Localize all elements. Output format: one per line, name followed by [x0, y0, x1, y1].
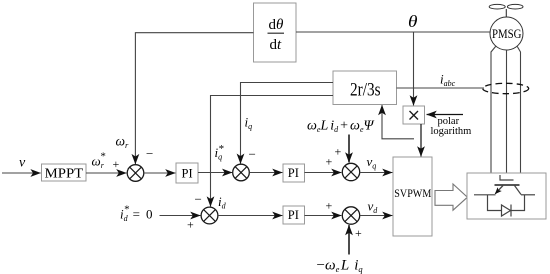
wire S4 to PI3 [218, 215, 282, 217]
wire S3 to SVPWM [360, 172, 393, 174]
svg-text:+: + [113, 157, 120, 171]
box PI3 [283, 206, 305, 224]
wire PI3 to S5 [305, 215, 342, 217]
svg-text:id*=0: id*=0 [120, 204, 152, 224]
svg-text:PI: PI [182, 166, 193, 180]
wire polar logarithm into multiplier [427, 114, 463, 116]
wire multiplier output down into SVPWM [420, 124, 422, 156]
wire diode loop [488, 195, 525, 211]
svg-text:SVPWM: SVPWM [394, 186, 431, 200]
box MPPT [42, 164, 87, 181]
diode D1 [502, 205, 512, 217]
svg-text:PI: PI [288, 166, 299, 180]
summing junction S1 [127, 165, 144, 182]
svg-text:ωr*: ωr* [92, 151, 106, 171]
summing junction S4 [201, 207, 218, 224]
wire feedback from multiplier output up into 2r/3s [382, 105, 414, 139]
label polar logarithm [431, 116, 472, 137]
wire theta branch down into multiplier [413, 32, 415, 105]
svg-text:+: + [187, 218, 194, 232]
wire S1 to PI1 [144, 172, 176, 174]
svg-text:−: − [249, 147, 256, 162]
svg-text:PI: PI [288, 208, 299, 222]
wire 3-phase line b [506, 50, 508, 173]
IGBT emitter rail [474, 194, 496, 196]
box PI2 [283, 164, 305, 182]
summing junction S5 [342, 207, 359, 224]
IGBT bar [495, 184, 520, 186]
wire i_abc from stator to 2r/3s [397, 87, 485, 89]
svg-text:2r/3s: 2r/3s [350, 79, 381, 100]
box SVPWM [393, 157, 432, 236]
svg-text:+: + [326, 199, 333, 213]
summing junction S3 [342, 163, 359, 180]
current sensor dashed ellipse [483, 83, 529, 93]
svg-text:θ: θ [408, 12, 418, 31]
wind turbine blades [489, 4, 523, 17]
wire 3-phase line c [517, 46, 521, 173]
wire i_q from 2r/3s to S2 [241, 83, 334, 164]
wire S2 to PI2 [250, 172, 283, 174]
IGBT collector [515, 186, 522, 195]
box PI1 [176, 163, 198, 183]
wire omega_r from d-theta/dt down to S1 [135, 33, 253, 164]
generator PMSG [490, 17, 523, 50]
svg-text:−: − [146, 146, 153, 161]
summing junction S2 [233, 164, 250, 181]
svg-text:MPPT: MPPT [45, 165, 84, 180]
IGBT gate lead [500, 175, 514, 180]
IGBT collector rail [521, 194, 535, 196]
box d-theta/dt [254, 3, 297, 62]
svg-text:logarithm: logarithm [431, 126, 472, 137]
svg-text:PMSG: PMSG [492, 27, 522, 41]
svg-text:dt: dt [270, 37, 283, 53]
svg-text:v: v [19, 155, 26, 170]
IGBT emitter with arrow [495, 186, 503, 194]
wire S5 to SVPWM [360, 215, 393, 217]
svg-text:−: − [195, 192, 202, 207]
wire v input [2, 172, 41, 174]
wire minus-omega-L-iq up into S5 [348, 225, 350, 254]
wire theta from PMSG to d-theta/dt [296, 31, 490, 33]
box multiplier [403, 106, 425, 124]
block arrow SVPWM to converter [435, 184, 467, 210]
wire i_d_star to S4 [160, 215, 201, 217]
svg-text:+: + [355, 226, 362, 240]
svg-text:+: + [335, 145, 342, 159]
box 2r/3s [333, 71, 397, 105]
wire MPPT to S1 [86, 172, 126, 174]
wire PI1 to S2 [198, 172, 232, 174]
wire PI2 to S3 [305, 172, 342, 174]
box converter [467, 173, 546, 219]
wire i_d from 2r/3s to S4 [211, 96, 334, 207]
svg-text:+: + [326, 155, 333, 169]
wire feedforward down into S3 [348, 135, 350, 163]
svg-text:dθ: dθ [269, 17, 285, 33]
svg-text:−ωeLiq: −ωeLiq [317, 258, 364, 274]
wire 3-phase line a [491, 46, 496, 173]
